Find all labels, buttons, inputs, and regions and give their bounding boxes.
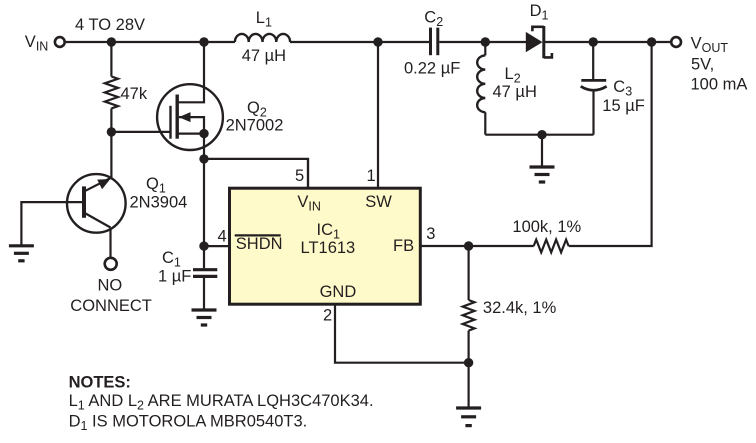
- node: divider / gnd junction: [464, 358, 473, 367]
- svg-text:5V,: 5V,: [691, 55, 714, 73]
- svg-text:100k, 1%: 100k, 1%: [512, 218, 581, 236]
- node: D1 cathode / C3 junction: [589, 37, 598, 46]
- svg-text:47 µH: 47 µH: [242, 47, 286, 65]
- svg-text:1: 1: [367, 167, 376, 185]
- svg-text:L1 AND L2 ARE MURATA LQH3C470K: L1 AND L2 ARE MURATA LQH3C470K34.: [69, 392, 374, 413]
- svg-text:15 µF: 15 µF: [602, 97, 645, 115]
- output terminal VOUT: [671, 37, 681, 47]
- node: VIN rail / Q2 drain junction: [199, 37, 208, 46]
- node: VOUT rail junction: [647, 37, 656, 46]
- inductor L2: [477, 42, 593, 135]
- svg-text:4 TO 28V: 4 TO 28V: [75, 16, 145, 34]
- ground (divider): [456, 363, 481, 426]
- resistor 47k: [110, 42, 112, 77]
- ground (C1): [192, 310, 217, 325]
- svg-text:SHDN: SHDN: [236, 235, 283, 253]
- node: FB / divider junction: [464, 241, 473, 250]
- node: rail / pin1: [373, 37, 382, 46]
- svg-text:32.4k, 1%: 32.4k, 1%: [483, 299, 557, 317]
- node: Q2 source / pin5 / SHDN junction: [199, 154, 208, 163]
- wire top rail input: [66, 41, 430, 43]
- svg-text:CONNECT: CONNECT: [70, 297, 152, 315]
- svg-text:5: 5: [295, 167, 304, 185]
- svg-text:D1 IS MOTOROLA MBR0540T3.: D1 IS MOTOROLA MBR0540T3.: [69, 413, 308, 434]
- node: L2 bottom / ground junction: [537, 130, 546, 139]
- svg-text:4: 4: [218, 228, 227, 246]
- no-connect terminal: [105, 258, 117, 270]
- svg-text:47k: 47k: [121, 85, 148, 103]
- wire junction to D1 anode: [485, 41, 526, 43]
- svg-text:GND: GND: [320, 283, 357, 301]
- svg-text:2: 2: [323, 306, 332, 324]
- wire GND pin 2: [335, 304, 469, 363]
- pin 5 stub: [307, 159, 309, 188]
- node: C2 / L2 junction: [481, 37, 490, 46]
- wire Q1 base lead: [21, 202, 84, 245]
- node: VIN rail / 47k junction: [107, 37, 116, 46]
- resistor 100k 1%: [534, 240, 569, 253]
- svg-text:47 µH: 47 µH: [493, 83, 537, 101]
- transistor Q2 (2N7002 MOSFET): [157, 42, 223, 159]
- svg-text:2N3904: 2N3904: [130, 193, 188, 211]
- input terminal VIN: [55, 37, 65, 47]
- node: SHDN / C1 junction: [199, 241, 208, 250]
- wire D1 cathode to VOUT: [593, 41, 670, 43]
- wire node to SHDN/C1: [203, 159, 205, 246]
- svg-text:1 µF: 1 µF: [158, 268, 191, 286]
- wire VOUT rail down to 100k: [569, 42, 652, 246]
- wire SHDN pin 4: [204, 245, 230, 247]
- svg-text:LT1613: LT1613: [301, 239, 356, 257]
- inductor L1: [235, 34, 290, 42]
- ground (L2/C3): [530, 135, 555, 182]
- IC1 LT1613 body: [230, 188, 421, 304]
- resistor 32.4k 1%: [468, 246, 470, 300]
- wire Q1 collector down: [109, 228, 111, 258]
- capacitor C1: [193, 246, 217, 309]
- svg-text:NOTES:: NOTES:: [69, 374, 131, 392]
- wire FB pin 3: [420, 245, 533, 247]
- capacitor C2: [431, 28, 486, 56]
- ground (Q1 base): [9, 246, 34, 261]
- svg-text:FB: FB: [393, 237, 414, 255]
- wire Q2 source to IC pin 5: [204, 159, 308, 188]
- transistor Q1 (2N3904 BJT): [67, 174, 126, 233]
- svg-text:100 mA: 100 mA: [691, 76, 748, 94]
- svg-text:0.22 µF: 0.22 µF: [404, 59, 460, 77]
- svg-text:2N7002: 2N7002: [226, 117, 284, 135]
- svg-text:3: 3: [426, 225, 435, 243]
- svg-text:NO: NO: [98, 276, 123, 294]
- diode D1 (Schottky): [526, 26, 589, 58]
- svg-text:SW: SW: [365, 193, 392, 211]
- pin 1 stub / wire to rail: [377, 42, 379, 188]
- wire Q1 emitter up to gate node: [110, 132, 112, 178]
- capacitor C3: [581, 42, 607, 135]
- node: 47k bottom / gate junction: [107, 127, 116, 136]
- node: Q2 source/body tap: [199, 129, 208, 138]
- wire gate lead to Q2: [111, 131, 170, 133]
